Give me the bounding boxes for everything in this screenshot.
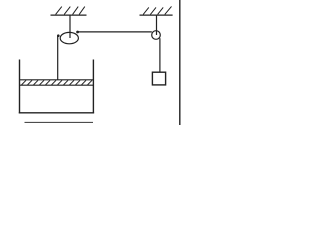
weight block [152,72,165,85]
piston top line [20,79,94,81]
rope from left pulley down to piston [57,36,59,80]
left pulley axle [69,15,71,38]
tank left wall [19,60,21,114]
right pulley axle [156,15,158,35]
left ceiling support bar [51,14,87,16]
tank right wall [92,60,94,114]
horizontal rope between pulleys [78,31,152,33]
piston bottom line [20,84,94,86]
right support hatching [143,6,171,14]
rope junction dot on left side of left pulley [57,34,60,37]
right ceiling support bar [140,14,173,16]
figure right border [179,0,181,125]
piston hatching [22,80,93,85]
tank bottom [19,112,94,114]
rope from right pulley down to weight [159,38,161,72]
right pulley wheel [152,31,161,40]
ground line under tank [25,121,94,123]
rope junction dot on upper right of left pulley [76,31,79,34]
left pulley wheel [60,32,78,43]
left support hatching [56,7,85,15]
